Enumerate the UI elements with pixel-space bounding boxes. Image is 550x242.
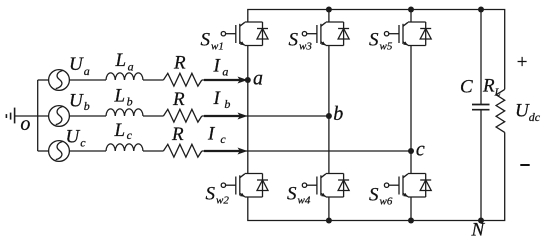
- wire: leg3 mid: [410, 46, 412, 174]
- IGBT switch Sw4: [302, 174, 349, 198]
- svg-text:N: N: [471, 220, 486, 241]
- wire: ground to bus (node o): [15, 115, 49, 117]
- wire: leg3 bottom drop: [410, 197, 412, 221]
- node a junction dot: [245, 77, 251, 83]
- svg-text:Sw2: Sw2: [206, 184, 230, 207]
- svg-text:Udc: Udc: [515, 101, 541, 125]
- svg-text:Ua: Ua: [69, 54, 90, 78]
- wire: source Ub to inductor Lb: [69, 115, 106, 117]
- inductor Lc: [106, 144, 143, 151]
- load resistor RL zigzag: [496, 89, 505, 132]
- current arrow Ib: [204, 113, 248, 120]
- resistor R phase a: [163, 73, 201, 86]
- svg-text:Lc: Lc: [114, 120, 133, 142]
- wire: source Uc to inductor Lc: [69, 150, 106, 152]
- inductor La: [106, 73, 143, 80]
- resistor R phase b: [163, 109, 201, 122]
- IGBT switch Sw1: [221, 22, 268, 46]
- wire: R to node c: [202, 150, 411, 152]
- IGBT switch Sw6: [384, 174, 431, 198]
- current arrow Ic: [204, 148, 248, 155]
- svg-text:c: c: [416, 139, 425, 161]
- svg-text:Uc: Uc: [66, 127, 87, 150]
- top rail dot leg2: [326, 7, 332, 13]
- svg-text:Ub: Ub: [69, 91, 90, 114]
- wire: La to R (phase a): [143, 79, 163, 81]
- inductor Lb: [106, 109, 143, 116]
- resistor R phase c: [163, 144, 201, 157]
- wire: Lb to R (phase b): [143, 115, 163, 117]
- svg-text:Ia: Ia: [213, 55, 229, 78]
- svg-text:C: C: [460, 77, 473, 98]
- wire: leg2 bottom drop: [328, 197, 330, 221]
- svg-text:Sw3: Sw3: [289, 30, 313, 53]
- svg-text:Sw1: Sw1: [201, 30, 224, 53]
- current arrow Ia: [204, 77, 248, 84]
- capacitor C branch bottom wire: [480, 110, 482, 221]
- AC source Ub: [49, 106, 70, 127]
- bottom rail dot leg2: [326, 218, 332, 224]
- ground: [6, 108, 14, 124]
- wire: Lc to R (phase c): [143, 150, 163, 152]
- svg-text:Ib: Ib: [213, 88, 231, 111]
- IGBT switch Sw2: [221, 174, 268, 198]
- svg-text:b: b: [333, 103, 343, 125]
- svg-text:Ic: Ic: [207, 124, 226, 146]
- wire: R to node b: [202, 115, 329, 117]
- svg-text:R: R: [172, 89, 185, 110]
- bottom rail dot leg3: [408, 218, 414, 224]
- label minus: [520, 164, 529, 166]
- wire: top DC rail: [248, 10, 505, 90]
- svg-text:+: +: [516, 52, 529, 73]
- svg-text:o: o: [20, 113, 30, 135]
- node b junction dot: [326, 113, 332, 119]
- node c junction dot: [408, 148, 414, 154]
- wire: bottom DC rail: [248, 132, 505, 220]
- svg-text:RL: RL: [482, 76, 501, 99]
- IGBT switch Sw3: [302, 22, 349, 46]
- wire: source Ua to inductor La: [69, 79, 106, 81]
- capacitor C plates: [472, 105, 490, 110]
- svg-text:Sw4: Sw4: [287, 184, 311, 207]
- wire: leg2 mid: [328, 46, 330, 174]
- wire: leg3 top drop: [410, 10, 412, 23]
- AC source Ua: [49, 70, 70, 91]
- svg-text:a: a: [253, 68, 263, 90]
- wire: R to node a: [202, 79, 248, 81]
- wire: leg1 mid (Sw1 emitter to Sw2 collector): [247, 46, 249, 174]
- top rail dot leg3: [408, 7, 414, 13]
- IGBT switch Sw5: [384, 22, 431, 46]
- svg-text:R: R: [173, 53, 186, 74]
- bottom rail dot capacitor (node N): [478, 218, 484, 224]
- svg-text:Sw6: Sw6: [369, 185, 393, 208]
- wire: bus to source Ua: [38, 79, 49, 81]
- wire: left source bus vertical: [37, 80, 39, 151]
- capacitor C branch top wire: [480, 10, 482, 105]
- svg-text:Lb: Lb: [114, 85, 133, 108]
- wire: leg2 top drop: [328, 10, 330, 23]
- top rail dot capacitor: [478, 7, 484, 13]
- svg-text:R: R: [171, 124, 184, 145]
- AC source Uc: [49, 141, 70, 162]
- svg-text:La: La: [115, 50, 134, 73]
- wire: bus to source Uc: [38, 150, 49, 152]
